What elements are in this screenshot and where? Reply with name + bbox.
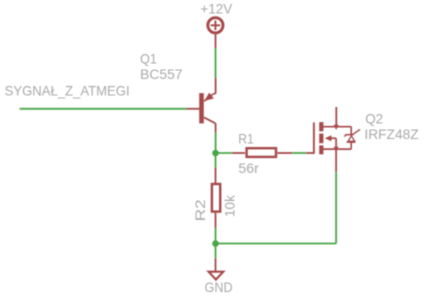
svg-text:+12V: +12V (200, 1, 233, 17)
svg-text:56r: 56r (238, 160, 259, 176)
svg-text:10k: 10k (222, 194, 238, 217)
svg-text:Q1: Q1 (140, 51, 157, 67)
svg-text:IRFZ48Z: IRFZ48Z (364, 126, 419, 142)
svg-text:SYGNAŁ_Z_ATMEGI: SYGNAŁ_Z_ATMEGI (5, 82, 130, 98)
svg-text:GND: GND (205, 279, 233, 295)
svg-text:BC557: BC557 (140, 66, 183, 82)
svg-text:R1: R1 (238, 131, 254, 147)
svg-text:Q2: Q2 (365, 110, 383, 126)
svg-text:R2: R2 (192, 199, 208, 221)
